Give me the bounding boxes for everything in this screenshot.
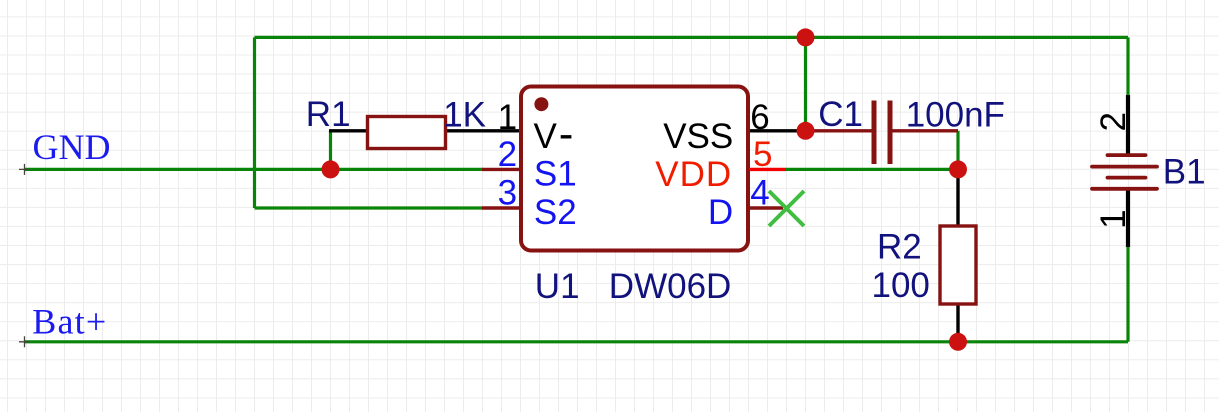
svg-text:3: 3 — [498, 174, 517, 213]
wire endpoint marker Bat+ — [19, 336, 30, 347]
svg-text:1K: 1K — [443, 96, 486, 135]
junction dot VDD node — [949, 160, 967, 178]
wire right vertical upper — [1126, 37, 1129, 97]
svg-text:C1: C1 — [818, 95, 863, 134]
svg-text:6: 6 — [750, 98, 769, 137]
wire R2 top lead black — [956, 169, 959, 226]
no-connect X on pin 4 — [769, 191, 804, 226]
wire battery top lead black — [1126, 95, 1130, 156]
wire vertical left (top net to S2) — [253, 37, 256, 208]
svg-text:Bat+: Bat+ — [32, 302, 107, 342]
wire Bat+ horizontal — [25, 340, 1129, 343]
wire R1 right lead to pin1 black — [445, 129, 521, 132]
svg-text:R1: R1 — [306, 95, 351, 134]
svg-text:DW06D: DW06D — [609, 267, 732, 306]
junction dot top wire — [797, 28, 815, 46]
op-amp U1 DW06D IC body — [521, 87, 748, 307]
svg-text:5: 5 — [753, 135, 772, 174]
svg-text:R2: R2 — [877, 228, 922, 267]
pin 3 stub — [482, 206, 521, 209]
wire top net horizontal — [255, 36, 1129, 39]
svg-text:2: 2 — [498, 135, 517, 174]
resistor R1 — [306, 95, 486, 149]
svg-text:4: 4 — [750, 174, 769, 213]
svg-text:S2: S2 — [534, 193, 577, 232]
junction dot Bat+ node — [949, 333, 967, 351]
junction dot R1/GND — [322, 160, 340, 178]
wire battery bottom lead black — [1126, 189, 1130, 248]
svg-text:V: V — [534, 117, 558, 156]
wire right vertical lower — [1126, 246, 1129, 342]
svg-text:1: 1 — [498, 98, 517, 137]
pin 2 stub — [482, 168, 521, 171]
svg-text:VSS: VSS — [663, 117, 733, 156]
svg-text:D: D — [708, 193, 733, 232]
battery B1 — [1092, 112, 1206, 229]
svg-text:1: 1 — [1094, 209, 1133, 228]
wire S2 horizontal — [255, 206, 484, 209]
svg-text:100: 100 — [872, 266, 930, 305]
svg-text:S1: S1 — [534, 155, 577, 194]
wire VDD to R2 node — [786, 168, 958, 171]
pin 5 stub red — [749, 168, 786, 171]
capacitor C1 — [806, 95, 1005, 164]
junction dot pin6/C1 — [797, 122, 815, 140]
svg-text:GND: GND — [33, 127, 111, 167]
wire C1 left vertical — [804, 37, 807, 130]
svg-text:VDD: VDD — [655, 155, 732, 194]
svg-text:B1: B1 — [1163, 152, 1206, 191]
wire C1 right vertical — [956, 131, 959, 170]
wire endpoint marker GND — [19, 164, 30, 175]
wire R1 left lead black — [329, 129, 368, 132]
svg-text:2: 2 — [1094, 112, 1133, 131]
svg-text:100nF: 100nF — [906, 95, 1005, 134]
wire R1 tap vertical — [329, 131, 332, 170]
svg-text:U1: U1 — [535, 267, 580, 306]
wire GND net horizontal — [25, 168, 484, 171]
resistor R2 — [872, 226, 977, 305]
pin 4 stub — [749, 206, 783, 209]
wire R2 bottom lead black — [956, 304, 959, 342]
wire pin6 to C1 node black — [749, 129, 806, 132]
